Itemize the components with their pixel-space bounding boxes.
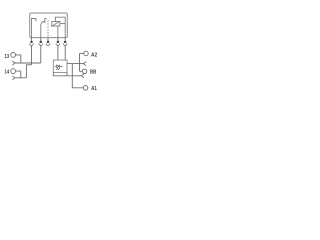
svg-text:14: 14 (5, 69, 10, 75)
svg-text:A1: A1 (91, 86, 97, 92)
svg-text:13: 13 (5, 54, 10, 60)
svg-text:BB: BB (90, 69, 96, 75)
svg-text:A2: A2 (91, 52, 97, 58)
